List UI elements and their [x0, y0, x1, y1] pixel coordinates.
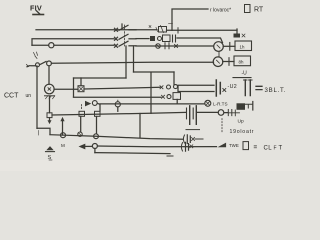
dashes above E1 — [81, 105, 83, 111]
node 7b marks — [242, 34, 245, 37]
wire LC drop — [94, 149, 96, 153]
actuator arrow — [85, 101, 91, 107]
node circle LA3 — [94, 134, 99, 139]
terminal circle-x on rail C — [156, 44, 161, 49]
tick LC end — [167, 155, 173, 157]
wire motor to square — [49, 96, 51, 113]
x mark row2 — [162, 95, 165, 98]
tick CT1 — [229, 43, 231, 51]
contactor K1 contact — [150, 36, 155, 41]
x mark row1 — [160, 86, 163, 89]
vertical to square x — [80, 78, 82, 86]
junction square E2 — [95, 111, 101, 116]
terminal circle — [218, 110, 224, 116]
speck marks above rail A — [149, 24, 173, 28]
vertical into contact row1 — [173, 72, 175, 84]
component dark block — [237, 103, 246, 110]
linkage dashed — [221, 119, 223, 133]
wire y78 — [74, 77, 127, 79]
node equiv sign — [256, 86, 262, 89]
meter A1 box — [234, 56, 251, 66]
wire rail C middle — [136, 45, 214, 47]
wire rail A drop — [236, 29, 238, 34]
vertical from square E2 — [96, 117, 98, 134]
contact circle row1 a — [167, 85, 171, 89]
contact circle row1 b — [174, 85, 178, 89]
connector double bars — [244, 80, 253, 96]
CT1 instrument — [214, 42, 224, 52]
node -U2 label — [228, 84, 237, 90]
x mark small — [224, 112, 240, 114]
node M label — [61, 143, 65, 148]
wire node to motor — [48, 66, 50, 85]
node 19oloatr label — [230, 129, 255, 135]
flag arrow LB end — [218, 143, 227, 148]
svg-text:19oloatr: 19oloatr — [230, 129, 255, 135]
pushbutton circle b — [115, 100, 120, 111]
x mark after U2 — [223, 89, 226, 92]
node equals label — [254, 144, 258, 151]
svg-text:-U2: -U2 — [228, 84, 237, 90]
motor M1 — [45, 84, 55, 94]
wire row2b to lamp — [100, 103, 205, 105]
wire motor row right — [84, 87, 160, 89]
arrow left LB — [79, 144, 86, 150]
wire CT1 to meter — [223, 45, 235, 47]
wire rail A top — [36, 29, 157, 31]
node -U label — [242, 71, 248, 77]
wire left rail corner — [37, 128, 50, 134]
pushbutton circle a — [92, 101, 100, 111]
node 3BLT label — [265, 87, 287, 94]
vertical V2 from rail C — [133, 46, 135, 72]
vertical from square E1 — [80, 117, 82, 133]
node FIV label — [30, 4, 42, 13]
vertical x140 — [139, 114, 141, 138]
wire line LA — [50, 135, 183, 140]
svg-text:3BL.T.: 3BL.T. — [265, 87, 287, 94]
wire pair to U2 device — [178, 85, 214, 91]
capacitor tails base — [186, 129, 200, 131]
meter A1 label — [239, 60, 244, 65]
arrow Y down — [48, 118, 52, 125]
relay coil box row2 — [173, 93, 181, 100]
wire underline — [233, 77, 251, 79]
vertical x151 — [150, 73, 152, 114]
node circle LA2 — [78, 132, 82, 136]
capacitor C3 on LB — [181, 142, 192, 151]
meter W1 box — [235, 41, 252, 51]
component dark tap — [234, 34, 241, 38]
switch S2 on rail D — [27, 62, 47, 67]
svg-text:TWE: TWE — [229, 143, 239, 148]
arrow T up — [60, 117, 64, 135]
lamp circle-x L-RTS — [205, 100, 211, 106]
wire cap to terminal — [198, 111, 219, 113]
junction box square with x — [78, 86, 84, 92]
node circle LA1 — [61, 133, 66, 138]
svg-text:RT: RT — [254, 7, 264, 14]
svg-text:-U: -U — [242, 71, 248, 77]
capacitor C1 plates — [187, 106, 197, 125]
node RT label — [254, 7, 264, 14]
wire row2 — [74, 96, 162, 98]
wire stub above switch — [121, 24, 123, 28]
wire rail B — [32, 39, 114, 45]
x mark on rail C — [175, 45, 178, 48]
svg-text:8h: 8h — [239, 60, 244, 65]
tick on rail A — [177, 28, 179, 33]
junction box small square — [47, 113, 52, 118]
wire left rail down — [36, 66, 38, 128]
svg-text:M: M — [61, 143, 65, 148]
svg-text:L-R.TS: L-R.TS — [213, 102, 228, 107]
svg-text:CL: CL — [264, 146, 273, 152]
svg-text:T: T — [279, 146, 283, 152]
tick CT2 — [228, 58, 230, 66]
CT2 instrument — [213, 57, 223, 67]
wire y72 — [134, 71, 175, 73]
svg-text:F: F — [274, 146, 277, 152]
label above switch S2 — [34, 52, 38, 59]
vertical to motor row a — [73, 78, 75, 97]
terminal box bottom — [243, 142, 249, 150]
ground GS triangle — [46, 146, 55, 152]
wire LB left — [85, 145, 92, 147]
ground chassis under FIV — [33, 11, 44, 15]
wire rail A right — [167, 29, 238, 31]
wire motor row — [54, 88, 78, 90]
switch Q1 pole 2 — [115, 34, 137, 40]
switch Q1 pole 1 — [115, 25, 137, 31]
relay coil box on rail B — [163, 35, 171, 42]
node circle LB — [92, 144, 97, 149]
device U2 plates — [216, 80, 220, 96]
svg-text:r lovaroc*: r lovaroc* — [210, 8, 231, 14]
node S label — [48, 155, 53, 161]
node circle rail D — [47, 61, 52, 66]
wire LB — [97, 145, 216, 148]
wire branch up to remote label — [172, 9, 208, 30]
capacitor C2 on LA — [183, 135, 203, 144]
svg-text:un: un — [26, 93, 32, 99]
node TWE label — [229, 143, 239, 148]
switch Q1 linkage — [124, 25, 126, 46]
wire CT2 to meter — [223, 61, 234, 63]
ticks after terminal — [224, 110, 232, 116]
terminal circle on rail B — [158, 37, 162, 41]
junction square E1 — [79, 111, 85, 116]
wire LC — [95, 153, 170, 154]
wire rail B to CT1 — [177, 38, 223, 43]
ground hatch under motor — [45, 96, 55, 99]
svg-text:Up: Up — [238, 119, 244, 125]
node L-R.TS label — [213, 102, 228, 107]
wire rail D — [52, 62, 214, 63]
switch Q1 pole 3 — [115, 41, 137, 47]
svg-text:1h: 1h — [240, 45, 245, 50]
terminal T1 circle on rail C — [49, 43, 54, 48]
meter W1 label — [240, 45, 245, 50]
node Up label — [238, 119, 244, 125]
wire rail C — [54, 44, 114, 46]
node CCT label — [4, 93, 31, 100]
wire CT1 CT2 link — [218, 52, 220, 57]
contact circle row2 — [167, 95, 171, 99]
svg-text:CCT: CCT — [4, 93, 19, 100]
node r lovaroc label — [210, 8, 231, 14]
wire rail B middle — [136, 38, 149, 40]
terminal box top right — [245, 5, 251, 13]
bracket after block — [245, 104, 253, 108]
vertical V1 from rail C — [125, 46, 127, 78]
contact ticks on rail C — [165, 43, 169, 49]
component bars on rail B — [173, 35, 176, 42]
wire line E y113 — [52, 112, 186, 115]
node CLFT label — [264, 146, 283, 152]
wire rail C left — [32, 44, 49, 46]
wire below coil box — [176, 99, 178, 103]
svg-text:=: = — [254, 144, 258, 151]
fuse F1 on rail A — [156, 26, 167, 33]
tick below left corner — [38, 131, 40, 136]
